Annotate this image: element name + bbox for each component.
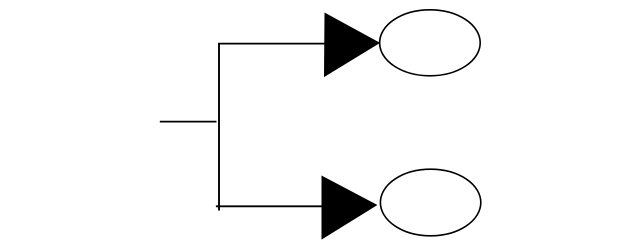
wire bottom branch [216, 205, 322, 207]
node output bottom [380, 169, 480, 236]
buffer amplifier bottom [322, 176, 376, 238]
wire vertical branch [218, 43, 220, 211]
buffer amplifier top [325, 13, 380, 76]
node output top [380, 10, 481, 76]
wire input [160, 121, 217, 123]
wire top branch [218, 43, 326, 45]
